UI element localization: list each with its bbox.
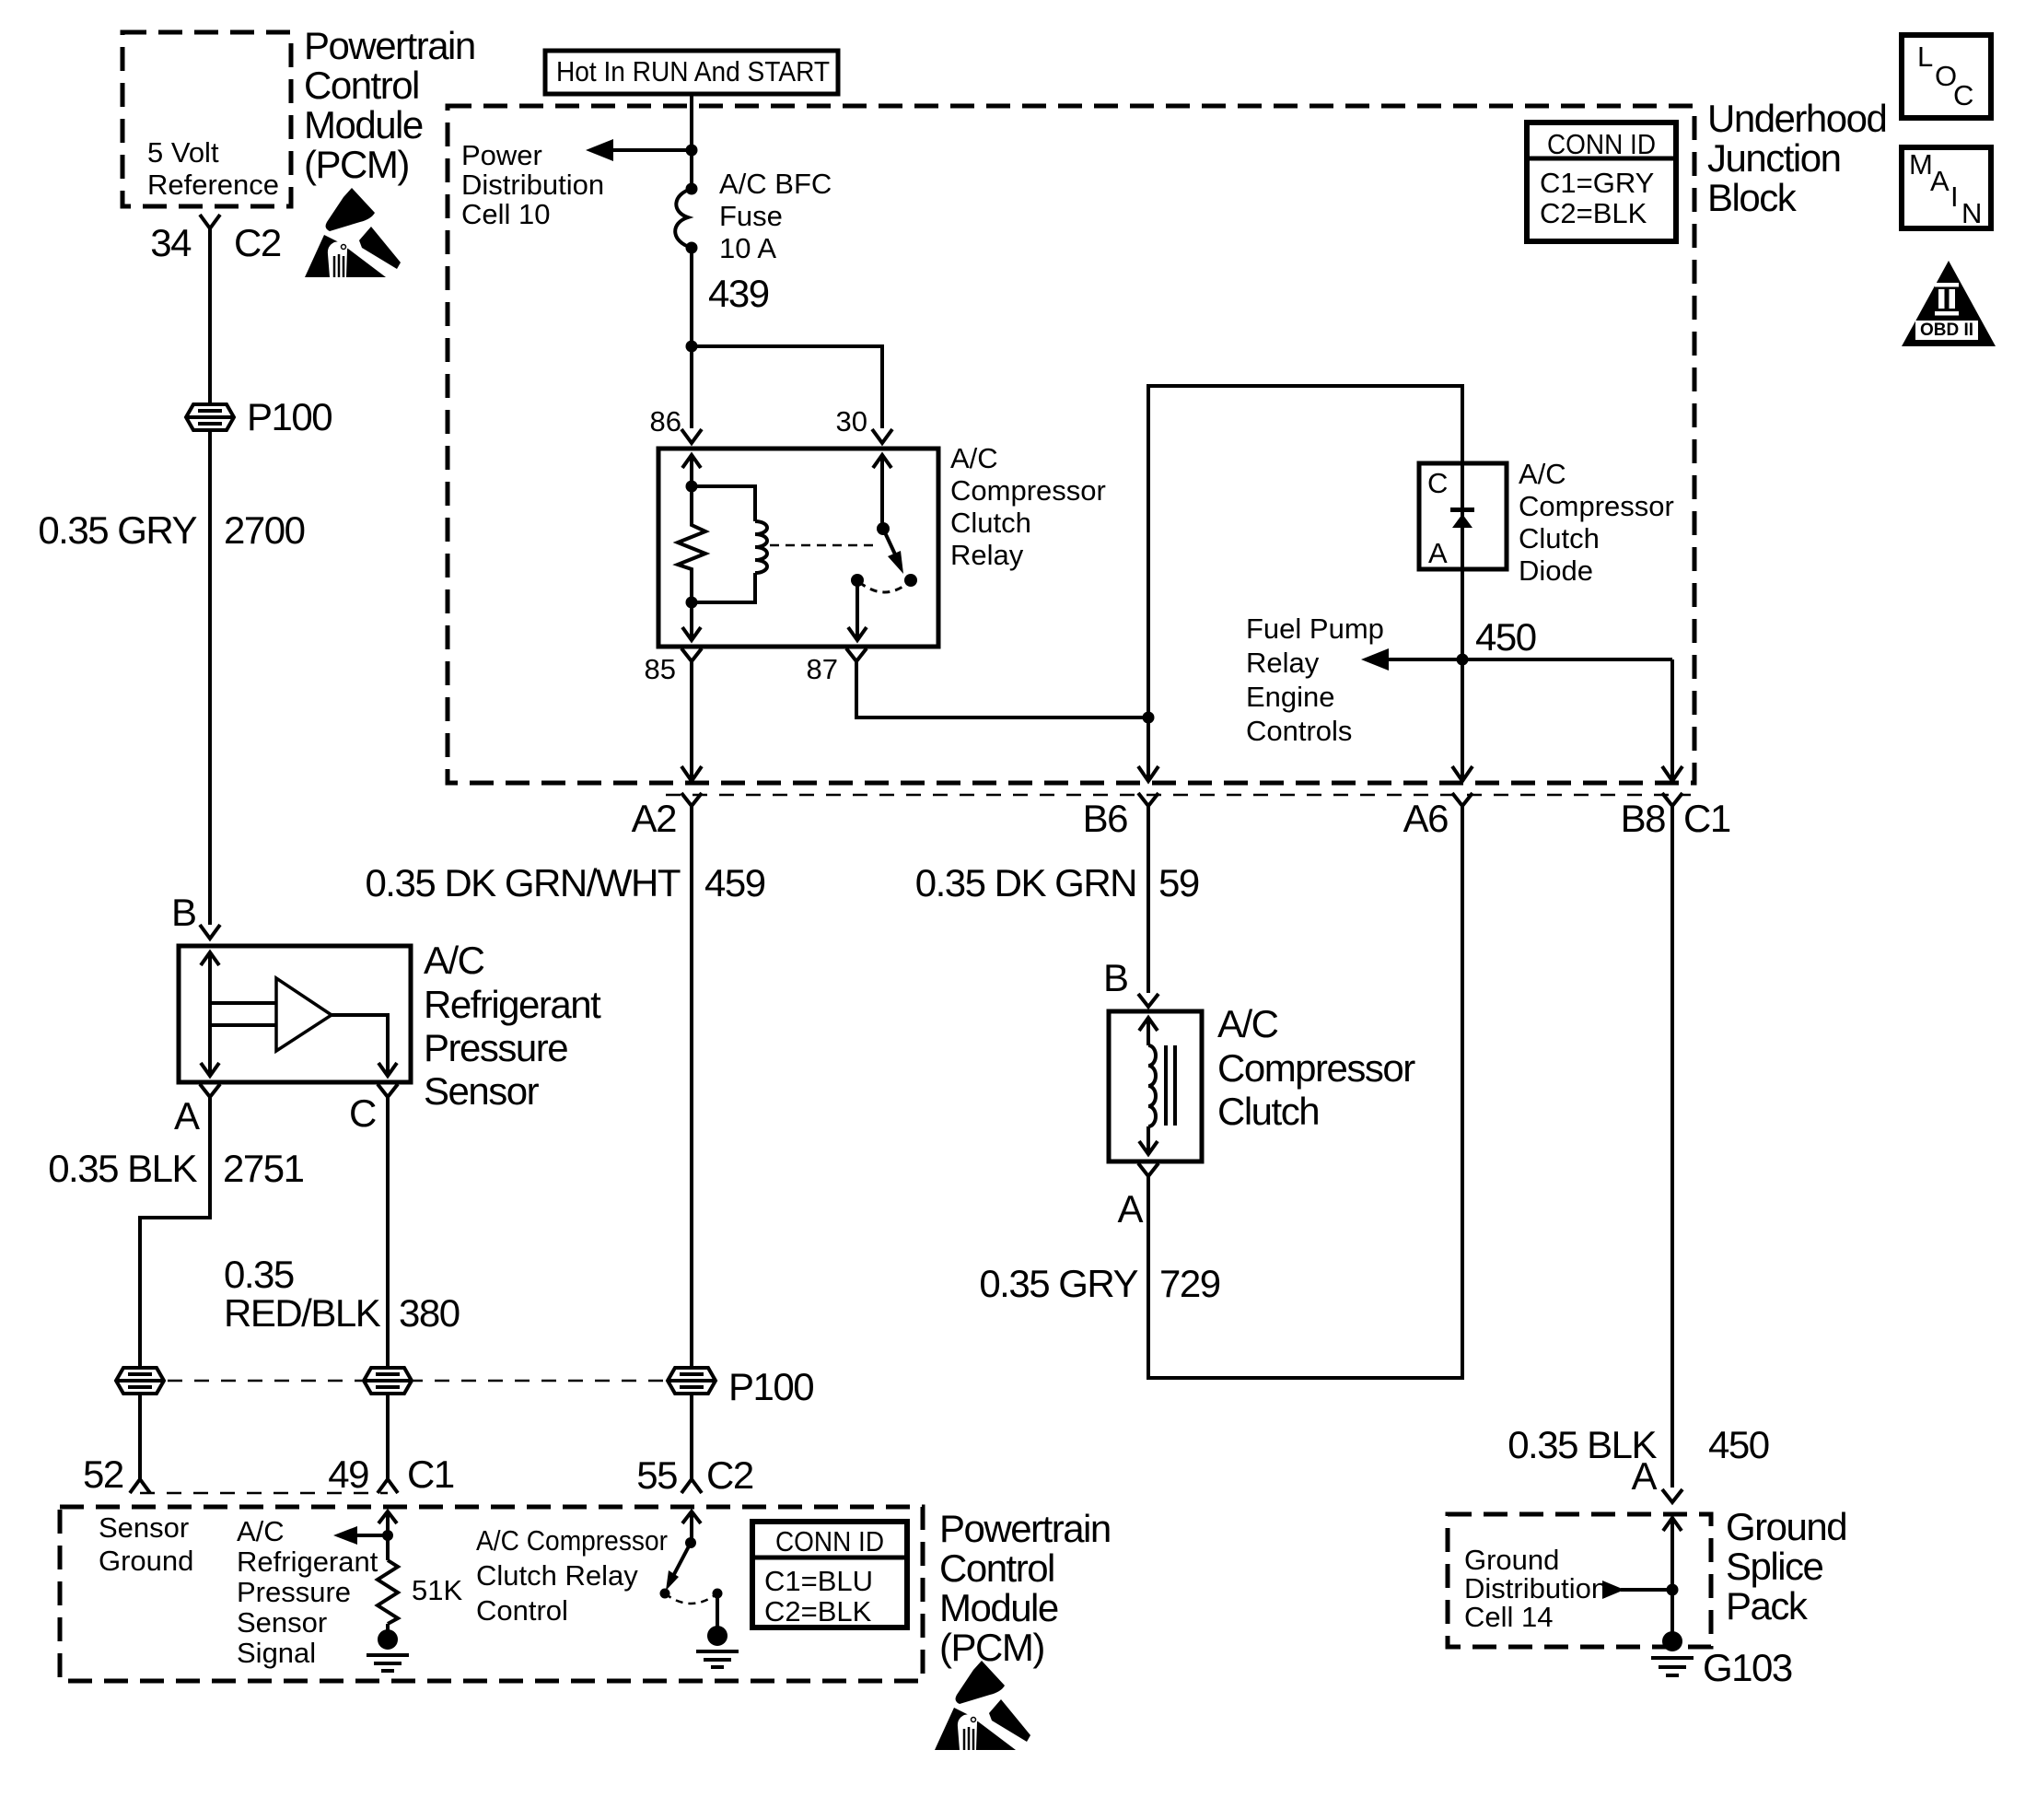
svg-text:C: C (1953, 79, 1973, 111)
svg-text:51K: 51K (412, 1574, 462, 1606)
A/C Compressor Clutch box (1109, 1011, 1202, 1161)
svg-text:C2=BLK: C2=BLK (1540, 197, 1647, 229)
svg-text:C2: C2 (234, 221, 281, 264)
svg-text:0.35 DK GRN: 0.35 DK GRN (915, 861, 1136, 904)
ESD symbol (bottom) (935, 1661, 1030, 1750)
svg-text:Fuse: Fuse (719, 200, 783, 232)
wire 2700: PCM to P100 (208, 228, 212, 406)
fuse A/C BFC 10A (686, 183, 698, 195)
svg-text:459: 459 (704, 861, 765, 904)
connector fork pin 49 (378, 1479, 398, 1493)
sensor internal input line with arrows (201, 952, 219, 965)
Underhood Junction Block dashed box (448, 106, 1694, 783)
relay switch common (pin 30) (873, 455, 891, 468)
svg-text:729: 729 (1159, 1262, 1220, 1305)
junction node at 163 (686, 145, 698, 157)
inline connector P100 (top) (186, 404, 234, 430)
wire 459: relay 85 down to A2 (690, 661, 693, 778)
wire 59: relay 87 to junction (856, 661, 1148, 717)
svg-text:Engine: Engine (1246, 681, 1335, 713)
A/C Compressor Clutch Relay box (658, 449, 938, 647)
Ground Splice Pack dashed box (1448, 1514, 1711, 1647)
svg-text:Signal: Signal (237, 1637, 316, 1669)
ESD symbol (top) (305, 188, 401, 277)
ground symbol (51K) (378, 1629, 398, 1650)
svg-text:A6: A6 (1403, 797, 1449, 840)
relay output wire (pin 87) (856, 580, 859, 640)
svg-text:G103: G103 (1703, 1646, 1792, 1689)
svg-text:10 A: 10 A (719, 232, 776, 264)
svg-text:2751: 2751 (223, 1147, 304, 1190)
connector fork pin 52 (130, 1479, 150, 1493)
svg-text:30: 30 (836, 405, 867, 437)
svg-text:5 Volt: 5 Volt (147, 136, 219, 169)
connector fork pin B8 (1662, 793, 1682, 806)
svg-text:C1: C1 (407, 1452, 454, 1496)
wire 439 (690, 248, 693, 428)
wire 450 from diode A (1461, 569, 1464, 778)
clutch coil with arrows (1139, 1018, 1158, 1031)
connector fork pin B (200, 925, 220, 939)
Hot In RUN And START box (545, 51, 838, 94)
svg-text:Control: Control (476, 1594, 568, 1627)
PCM 49 input arrow (378, 1511, 397, 1523)
svg-text:A2: A2 (632, 797, 677, 840)
svg-text:Junction: Junction (1707, 136, 1840, 180)
svg-text:N: N (1961, 197, 1982, 229)
svg-text:Ground: Ground (1726, 1505, 1846, 1548)
CONN ID box (PCM) (752, 1522, 907, 1627)
wire B8 down from 450 line (1670, 659, 1674, 778)
junction node 439 split (686, 341, 698, 353)
svg-text:87: 87 (807, 653, 838, 685)
connector fork sensor pin C (378, 1084, 398, 1097)
svg-text:380: 380 (399, 1291, 460, 1335)
svg-text:OBD II: OBD II (1920, 321, 1973, 340)
svg-text:450: 450 (1708, 1423, 1769, 1466)
junction node 87/B6/diode (1143, 712, 1155, 724)
svg-text:Module: Module (304, 103, 423, 146)
svg-text:A: A (1117, 1187, 1143, 1231)
relay coil branch (692, 486, 755, 521)
svg-text:Distribution: Distribution (461, 169, 604, 201)
svg-text:CONN ID: CONN ID (775, 1525, 884, 1557)
svg-text:L: L (1917, 41, 1933, 73)
svg-text:Sensor: Sensor (237, 1606, 327, 1639)
svg-text:A: A (1631, 1454, 1657, 1498)
relay switch blade (883, 529, 896, 556)
Powertrain Control Module (PCM) dashed box (top left) (122, 32, 291, 206)
OBD II triangle (1902, 261, 1996, 346)
svg-text:A: A (174, 1094, 200, 1137)
svg-text:Sensor: Sensor (99, 1511, 189, 1544)
svg-text:A/C: A/C (237, 1515, 285, 1547)
svg-text:52: 52 (83, 1452, 123, 1496)
svg-text:Clutch Relay: Clutch Relay (476, 1559, 638, 1592)
wire to pin 55 (690, 1392, 693, 1479)
diode wire through box (1461, 463, 1464, 569)
svg-text:C: C (1427, 467, 1448, 499)
svg-text:C2: C2 (706, 1453, 753, 1497)
P100 dashed connector row (168, 1380, 664, 1382)
svg-text:Powertrain: Powertrain (939, 1507, 1111, 1550)
resistor 51K (378, 1560, 398, 1624)
wire 380: sensor C down (386, 1097, 390, 1371)
svg-text:(PCM): (PCM) (939, 1626, 1044, 1669)
svg-text:Refrigerant: Refrigerant (237, 1546, 378, 1578)
svg-text:450: 450 (1475, 615, 1536, 659)
svg-text:2700: 2700 (224, 508, 305, 552)
svg-text:A/C: A/C (1519, 458, 1566, 490)
junction node 49 (382, 1530, 393, 1541)
wire to pin 52 (138, 1392, 142, 1479)
connector fork pin A2 (681, 793, 702, 806)
PCM switch blade (672, 1543, 691, 1578)
svg-text:Compressor: Compressor (1519, 490, 1674, 522)
svg-text:Controls: Controls (1246, 715, 1352, 747)
svg-text:B: B (171, 891, 196, 934)
ground symbol (switch) (716, 1593, 719, 1628)
ground splice internal wire with arrow (1663, 1518, 1682, 1531)
connector fork relay pin 30 (872, 429, 892, 443)
svg-text:A: A (1428, 537, 1448, 569)
svg-text:A/C BFC: A/C BFC (719, 168, 832, 200)
ground G103 symbol (1662, 1631, 1682, 1651)
diode symbol (1450, 507, 1474, 512)
junction node 450 (1457, 654, 1469, 666)
junction node ground (1667, 1584, 1679, 1596)
svg-text:P100: P100 (728, 1365, 813, 1408)
svg-text:Module: Module (939, 1586, 1058, 1629)
connector fork pin 34 C2 (200, 215, 220, 228)
relay coil output arrow (pin 85) (682, 627, 701, 640)
svg-text:0.35: 0.35 (224, 1253, 294, 1296)
op-amp triangle (sensor) (276, 978, 332, 1051)
svg-text:Control: Control (304, 64, 419, 107)
wire 729: clutch A down (1147, 1176, 1150, 1380)
fuel pump relay arrow line (1534, 658, 1672, 661)
svg-text:0.35 GRY: 0.35 GRY (38, 508, 197, 552)
svg-text:B6: B6 (1083, 797, 1128, 840)
svg-text:55: 55 (636, 1453, 677, 1497)
svg-text:Cell 10: Cell 10 (461, 198, 551, 230)
svg-text:A/C: A/C (1217, 1002, 1278, 1045)
inline connector (52 wire) (116, 1368, 164, 1394)
svg-text:C: C (349, 1091, 376, 1135)
svg-text:Splice: Splice (1726, 1545, 1823, 1588)
relay switch contacts (851, 574, 864, 587)
connector fork pin 55 (681, 1479, 702, 1493)
svg-text:Ground: Ground (99, 1545, 193, 1577)
svg-text:Pressure: Pressure (237, 1576, 351, 1608)
wire to pin 49 (386, 1392, 390, 1479)
PCM 55 switch input arrow (682, 1511, 701, 1523)
svg-text:CONN ID: CONN ID (1547, 128, 1656, 160)
svg-text:Block: Block (1707, 176, 1798, 219)
wire from Hot box to fuse (690, 94, 693, 189)
svg-text:C1=GRY: C1=GRY (1540, 167, 1654, 199)
thin dashed connector line 52-49 (140, 1492, 388, 1495)
thin dashed connector row A2-C1 (666, 794, 1691, 797)
svg-text:0.35 BLK: 0.35 BLK (48, 1147, 197, 1190)
svg-text:Relay: Relay (950, 539, 1024, 571)
svg-text:49: 49 (328, 1452, 368, 1496)
svg-text:Clutch: Clutch (1217, 1090, 1319, 1133)
svg-text:(PCM): (PCM) (304, 143, 409, 186)
svg-text:A/C: A/C (950, 442, 998, 474)
inline connector (49 wire) (364, 1368, 412, 1394)
connector fork sensor pin A (200, 1084, 220, 1097)
svg-text:M: M (1909, 148, 1933, 181)
svg-text:C1: C1 (1683, 797, 1730, 840)
wire 2700 continued to sensor B (208, 428, 212, 925)
svg-text:86: 86 (650, 405, 681, 437)
wire 459: A2 down to P100 (690, 806, 693, 1371)
sensor signal arrow (left) (354, 1534, 388, 1537)
wire: A6 down and across to clutch A (1148, 806, 1462, 1378)
MAIN box (1902, 147, 1991, 228)
wire 59: B6 down to clutch B (1147, 806, 1150, 993)
relay coil input arrow (pin 86) (682, 455, 701, 468)
svg-text:Refrigerant: Refrigerant (424, 983, 601, 1026)
A/C Refrigerant Pressure Sensor box (179, 946, 411, 1082)
svg-text:Underhood: Underhood (1707, 97, 1886, 140)
svg-text:439: 439 (708, 272, 769, 315)
wire 2751: sensor A down with jog (140, 1097, 210, 1371)
CONN ID box (underhood) (1527, 122, 1676, 241)
svg-text:C1=BLU: C1=BLU (764, 1565, 873, 1597)
svg-text:Pressure: Pressure (424, 1026, 567, 1069)
svg-text:RED/BLK: RED/BLK (224, 1291, 381, 1335)
PCM switch contacts (660, 1589, 670, 1599)
svg-text:Sensor: Sensor (424, 1069, 540, 1113)
sensor output wire with arrow (332, 1015, 388, 1076)
relay resistor (678, 486, 705, 602)
connector fork relay pin 86 (681, 429, 702, 443)
clutch plates (1164, 1045, 1168, 1126)
svg-text:Cell 14: Cell 14 (1464, 1601, 1554, 1633)
arrow A6 at junction block edge (1452, 766, 1472, 781)
svg-text:Control: Control (939, 1546, 1054, 1590)
svg-text:Power: Power (461, 139, 542, 171)
svg-text:Compressor: Compressor (950, 474, 1106, 507)
svg-text:P100: P100 (247, 395, 332, 438)
svg-text:A: A (1930, 165, 1950, 197)
svg-text:Hot In RUN And START: Hot In RUN And START (556, 55, 830, 87)
svg-text:Pack: Pack (1726, 1584, 1809, 1627)
sensor internal branch wires (210, 1001, 276, 1005)
wire B6 down with arrow (1147, 717, 1150, 778)
Powertrain Control Module (PCM) dashed box (bottom) (60, 1507, 923, 1681)
A/C Compressor Clutch Diode box (1419, 463, 1507, 569)
svg-text:B8: B8 (1621, 797, 1666, 840)
inline connector P100 (55 wire) (668, 1368, 716, 1394)
svg-text:34: 34 (150, 221, 192, 264)
svg-text:A/C Compressor: A/C Compressor (476, 1524, 668, 1557)
wire branch to relay pin 30 (692, 346, 882, 428)
svg-text:B: B (1103, 956, 1128, 999)
connector fork relay pin 85 (681, 648, 702, 661)
svg-text:0.35 DK GRN/WHT: 0.35 DK GRN/WHT (365, 861, 680, 904)
relay internal nodes (686, 481, 698, 493)
wire up-and-over to diode (1148, 386, 1462, 717)
power distribution arrow (left) (610, 148, 692, 152)
svg-text:85: 85 (645, 653, 676, 685)
svg-text:Relay: Relay (1246, 647, 1320, 679)
svg-text:Diode: Diode (1519, 554, 1593, 587)
connector fork pin A6 (1452, 793, 1472, 806)
svg-text:A/C: A/C (424, 939, 484, 982)
connector fork relay pin 87 (846, 648, 867, 661)
svg-text:Powertrain: Powertrain (304, 24, 475, 67)
svg-text:I: I (1950, 181, 1959, 213)
svg-text:59: 59 (1158, 861, 1199, 904)
svg-text:Ground: Ground (1464, 1544, 1559, 1576)
svg-text:C2=BLK: C2=BLK (764, 1595, 872, 1627)
svg-text:Compressor: Compressor (1217, 1046, 1415, 1090)
wire 450: B8 down to ground splice (1670, 806, 1674, 1487)
svg-text:Clutch: Clutch (950, 507, 1031, 539)
connector fork pin B6 (1138, 793, 1158, 806)
svg-text:0.35 GRY: 0.35 GRY (979, 1262, 1138, 1305)
connector fork ground splice pin A (1662, 1489, 1682, 1502)
svg-text:Fuel Pump: Fuel Pump (1246, 612, 1384, 645)
svg-text:Clutch: Clutch (1519, 522, 1600, 554)
ground distribution arrow (1621, 1588, 1672, 1592)
svg-text:Distribution: Distribution (1464, 1572, 1607, 1604)
svg-text:Reference: Reference (147, 169, 279, 201)
relay actuation dashed link (770, 544, 873, 547)
LOC box (1902, 35, 1991, 118)
connector fork clutch pin B (1138, 994, 1158, 1007)
connector fork clutch pin A (1138, 1163, 1158, 1176)
